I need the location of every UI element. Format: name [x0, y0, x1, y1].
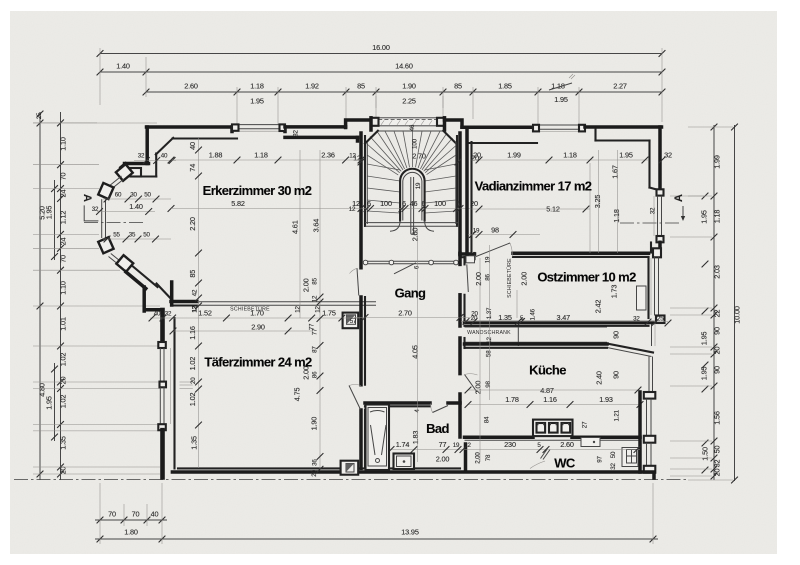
- north wall Erkerzimmer west part (outer face): [147, 125, 233, 129]
- svg-text:70: 70: [108, 510, 116, 519]
- Vadian interior extension lines: [598, 150, 600, 253]
- svg-text:58: 58: [486, 350, 493, 357]
- top dimension chain 1.40 / 14.60: [100, 71, 662, 73]
- svg-text:2.60: 2.60: [184, 82, 198, 91]
- window Taeferzimmer west glazing lower: [159, 387, 161, 424]
- Vadianzimmer south wall stub at spine: [460, 252, 475, 256]
- door leaf Bad: [433, 406, 449, 413]
- svg-text:86: 86: [485, 274, 492, 281]
- svg-text:77: 77: [439, 440, 447, 449]
- svg-text:19: 19: [453, 442, 460, 449]
- Vadianzimmer west wall: [465, 128, 469, 254]
- spine east: wall below Vadian stub: [458, 253, 462, 264]
- svg-text:1.70: 1.70: [250, 309, 264, 318]
- svg-text:1.74: 1.74: [396, 440, 410, 449]
- stairwell corner chamfer left: [365, 131, 378, 144]
- svg-text:1.18: 1.18: [612, 209, 621, 223]
- svg-text:1.95: 1.95: [700, 332, 709, 346]
- svg-text:Bad: Bad: [426, 421, 449, 436]
- east wall between Vadian and Ost windows: [658, 242, 662, 248]
- Wandschrank strip: [465, 326, 608, 328]
- glazed partition stair landing to Gang: [365, 260, 457, 262]
- svg-text:32: 32: [713, 460, 722, 468]
- east wall kitchen upper window strip: [648, 357, 650, 393]
- svg-text:1.95: 1.95: [250, 97, 264, 106]
- north wall NE corner (outer): [585, 125, 662, 129]
- Erker pier W-upper: [98, 183, 113, 199]
- window Vadianzimmer east pier top: [657, 189, 664, 195]
- svg-text:A: A: [81, 194, 93, 202]
- svg-text:2.20: 2.20: [188, 217, 197, 231]
- west wall niche inner line: [170, 348, 172, 424]
- svg-text:1.83: 1.83: [411, 431, 420, 445]
- svg-text:19: 19: [473, 228, 480, 235]
- section axis dash-dot right: [620, 222, 681, 224]
- Erker pier SE: [116, 255, 133, 272]
- bathtub: [366, 405, 390, 471]
- right dimension chain main: [713, 125, 715, 480]
- Erker SW inner diagonal wall: [133, 267, 158, 288]
- svg-text:32: 32: [610, 463, 617, 470]
- svg-text:12: 12: [312, 295, 319, 302]
- svg-text:Erkerzimmer 30 m2: Erkerzimmer 30 m2: [203, 183, 312, 198]
- svg-text:2.00: 2.00: [475, 452, 482, 464]
- window Vadianzimmer north pier right: [579, 125, 585, 132]
- svg-text:1.18: 1.18: [563, 151, 577, 160]
- svg-text:1.88: 1.88: [209, 151, 223, 160]
- svg-text:2.00: 2.00: [474, 272, 483, 286]
- svg-text:32: 32: [293, 130, 300, 137]
- left dimension chain 5.20/4.80: [39, 112, 41, 480]
- svg-text:1.02: 1.02: [188, 393, 197, 407]
- south wall (inner face): [178, 467, 341, 469]
- Erkerzimmer dims row1: [171, 159, 361, 161]
- svg-text:1.95: 1.95: [45, 206, 54, 220]
- Ostzimmer south wall: [465, 321, 654, 325]
- svg-text:98: 98: [485, 381, 492, 388]
- svg-text:85: 85: [312, 277, 319, 284]
- svg-text:1.93: 1.93: [599, 395, 613, 404]
- svg-text:20: 20: [471, 311, 478, 318]
- svg-text:32: 32: [650, 207, 657, 214]
- svg-text:1.75: 1.75: [322, 309, 336, 318]
- svg-text:20: 20: [473, 151, 481, 160]
- svg-text:100: 100: [412, 138, 419, 149]
- window Erkerzimmer north glazing: [239, 124, 280, 126]
- svg-text:2.00: 2.00: [302, 278, 311, 292]
- svg-text:12: 12: [315, 306, 322, 313]
- svg-text:1.90: 1.90: [310, 417, 319, 431]
- svg-text:90: 90: [612, 371, 621, 379]
- svg-text:1.80: 1.80: [124, 528, 138, 537]
- west wall Erkerzimmer outer vertical: [145, 127, 149, 164]
- svg-text:Ostzimmer 10 m2: Ostzimmer 10 m2: [537, 270, 636, 285]
- west wall inner face: [173, 318, 175, 468]
- right extension lines: [670, 195, 712, 197]
- Erker room corner vertical: [171, 283, 173, 303]
- svg-text:85: 85: [357, 82, 365, 91]
- svg-text:46: 46: [409, 124, 416, 131]
- svg-text:20: 20: [311, 469, 318, 476]
- spine east: wall at kitchen corner: [458, 338, 462, 374]
- Vadianzimmer dims row: [472, 159, 649, 161]
- bottom chain 1.80 and 13.95: [95, 538, 658, 540]
- svg-text:16.00: 16.00: [372, 43, 390, 52]
- svg-text:Küche: Küche: [529, 363, 566, 378]
- svg-text:1.99: 1.99: [507, 151, 521, 160]
- svg-text:1.95: 1.95: [45, 396, 54, 410]
- north wall Erkerzimmer west part (inner face): [173, 137, 238, 139]
- svg-text:1.73: 1.73: [610, 285, 619, 299]
- svg-text:20: 20: [59, 377, 68, 385]
- svg-text:SCHIEBETÜRE: SCHIEBETÜRE: [506, 258, 513, 298]
- door opening Gang to Erkerzimmer: [359, 297, 363, 385]
- window Erkerzimmer north pier right: [280, 124, 286, 131]
- svg-text:2.00: 2.00: [474, 381, 483, 395]
- svg-text:32: 32: [165, 311, 172, 318]
- svg-text:12: 12: [295, 306, 302, 313]
- svg-text:12: 12: [192, 305, 199, 312]
- svg-text:3.25: 3.25: [593, 195, 602, 209]
- Taeferzimmer right interior chain x320: [319, 310, 321, 470]
- spine east: wall segment below sliding door: [458, 295, 462, 326]
- svg-text:24: 24: [59, 190, 68, 198]
- stair eye handrail: [410, 177, 412, 233]
- window kitchen east pier 1: [644, 392, 656, 399]
- kitchen sink: [581, 438, 600, 447]
- door leaf Gang-Erkerzimmer: [357, 268, 359, 295]
- svg-text:97: 97: [597, 456, 604, 463]
- left small chain: [60, 112, 62, 480]
- window Ostzimmer east pier bottom: [656, 316, 665, 324]
- svg-text:3.47: 3.47: [556, 313, 570, 322]
- svg-text:1.35: 1.35: [59, 436, 68, 450]
- window Ostzimmer east pier top: [653, 248, 661, 257]
- svg-text:WANDSCHRANK: WANDSCHRANK: [467, 330, 511, 336]
- Erker SW outer diagonal wall: [126, 272, 146, 289]
- Erker SW window glazing: [109, 257, 122, 268]
- svg-text:1.95: 1.95: [700, 210, 709, 224]
- east wall Ostzimmer inner face: [647, 257, 649, 318]
- stair treads right flight: [425, 164, 456, 170]
- svg-text:20: 20: [190, 377, 197, 384]
- west wall outer face upper segment: [160, 310, 165, 342]
- svg-text:46: 46: [410, 199, 418, 208]
- left dimension chain 1.95s: [54, 180, 56, 260]
- Gang dims: [354, 317, 475, 319]
- Erker small dims: [103, 198, 171, 200]
- window kitchen east pier 2: [644, 436, 656, 443]
- svg-text:1.10: 1.10: [59, 137, 68, 151]
- svg-text:2.60: 2.60: [560, 440, 574, 449]
- svg-text:1.02: 1.02: [59, 395, 68, 409]
- svg-text:40: 40: [161, 153, 168, 160]
- svg-text:60: 60: [115, 192, 122, 199]
- stairwell corner chamfer right: [443, 131, 456, 144]
- svg-text:19: 19: [415, 182, 422, 189]
- svg-text:55: 55: [113, 232, 120, 239]
- Bad north wall with door: [365, 401, 430, 405]
- svg-text:1.02: 1.02: [59, 353, 68, 367]
- svg-text:1.67: 1.67: [611, 165, 620, 179]
- window Erkerzimmer north jamb steps: [230, 127, 234, 132]
- section line A-A bottom dash-dot: [14, 479, 688, 481]
- north wall NE corner (inner): [596, 139, 650, 141]
- spine wall west lower (Taeferzimmer east): [359, 410, 363, 468]
- east wall below Ostzimmer (to kitchen diagonal): [651, 323, 653, 346]
- Erkerzimmer vertical extensions: [299, 150, 301, 318]
- svg-text:2.00: 2.00: [520, 272, 529, 286]
- svg-text:Täferzimmer 24 m2: Täferzimmer 24 m2: [204, 355, 312, 370]
- Erkerzimmer interior chain x198: [198, 138, 200, 468]
- window Vadianzimmer east glazing: [657, 196, 659, 236]
- svg-text:6: 6: [367, 199, 371, 208]
- svg-text:1.95: 1.95: [554, 95, 568, 104]
- svg-text:50: 50: [713, 446, 722, 454]
- svg-text:1.02: 1.02: [188, 357, 197, 371]
- Vadian door dims 19/98: [468, 234, 540, 236]
- svg-text:Gang: Gang: [395, 286, 426, 301]
- Taeferzimmer Erker side wall vertical: [170, 282, 174, 305]
- window Taeferzimmer west glazing upper: [159, 348, 161, 382]
- window Taeferzimmer west pier 1: [158, 342, 166, 348]
- svg-text:70: 70: [59, 255, 68, 263]
- Ostzimmer radiator: [637, 286, 647, 310]
- svg-text:1.18: 1.18: [254, 151, 268, 160]
- svg-text:50: 50: [610, 451, 617, 458]
- svg-text:1.21: 1.21: [614, 409, 621, 421]
- Erker NW outer diagonal wall: [121, 164, 126, 168]
- svg-text:20: 20: [713, 347, 722, 355]
- svg-text:85: 85: [454, 82, 462, 91]
- svg-text:4.05: 4.05: [411, 345, 420, 359]
- svg-text:50: 50: [144, 192, 151, 199]
- svg-text:50: 50: [143, 232, 150, 239]
- svg-text:84: 84: [484, 416, 491, 423]
- svg-text:1.10: 1.10: [59, 281, 68, 295]
- svg-text:1.18: 1.18: [713, 210, 722, 224]
- east wall SE corner: [652, 473, 656, 478]
- svg-text:2.25: 2.25: [402, 97, 416, 106]
- svg-text:6: 6: [422, 199, 426, 208]
- svg-text:12: 12: [349, 153, 356, 160]
- Taeferzimmer top dims row: [150, 317, 360, 319]
- WC boiler: [622, 448, 638, 467]
- svg-text:19: 19: [485, 256, 492, 263]
- east wall SE corner pier: [644, 466, 656, 473]
- stair eye outer arch: [400, 169, 425, 221]
- stair eye inner arch: [403, 172, 422, 220]
- north wall between Erker window and stair bay (inner): [285, 136, 358, 140]
- svg-text:90: 90: [713, 366, 722, 374]
- stair bay side walls: [369, 118, 373, 130]
- top dimension chain row3: [146, 91, 662, 93]
- svg-text:2.36: 2.36: [321, 151, 335, 160]
- north wall Vadianzimmer west of window (outer): [462, 126, 533, 130]
- pencil strike over 1.18: [549, 83, 572, 90]
- sliding door Schiebetuere track Taeferzimmer: [197, 301, 376, 303]
- south wall (outer face): [172, 470, 654, 474]
- stair treads left flight: [367, 164, 400, 170]
- svg-text:1.40: 1.40: [129, 202, 143, 211]
- svg-text:1.99: 1.99: [713, 155, 722, 169]
- bottom chain 70/70/40: [95, 519, 167, 521]
- svg-text:87: 87: [312, 346, 319, 353]
- svg-text:2.27: 2.27: [613, 82, 627, 91]
- svg-text:20: 20: [713, 469, 722, 477]
- svg-text:13.95: 13.95: [401, 528, 419, 537]
- left extension lines: [33, 164, 99, 166]
- Vadianzimmer south wall with door: [513, 251, 649, 255]
- door leaf Gang-Kueche: [465, 375, 478, 393]
- Erker pier NE: [116, 164, 133, 181]
- inner diagonal at NW corner: [156, 138, 173, 155]
- svg-text:1.16: 1.16: [188, 326, 197, 340]
- svg-text:20: 20: [59, 467, 68, 475]
- door leaf stair-Gang: [394, 263, 416, 274]
- stair bay window band: [371, 118, 445, 126]
- kitchen east inner wall: [638, 392, 642, 472]
- chimney box in south wall: [341, 461, 359, 475]
- svg-text:98: 98: [491, 226, 499, 235]
- svg-text:1.78: 1.78: [505, 395, 519, 404]
- svg-text:25: 25: [657, 316, 664, 323]
- svg-text:2.42: 2.42: [594, 300, 603, 314]
- svg-text:1.92: 1.92: [305, 82, 319, 91]
- svg-text:6: 6: [456, 199, 460, 208]
- window Vadianzimmer north pier left: [533, 125, 539, 132]
- svg-text:Vadianzimmer 17 m2: Vadianzimmer 17 m2: [475, 179, 592, 194]
- sliding door opening Gang-Ostzimmer: [467, 264, 469, 292]
- stair bay window end blocks: [371, 118, 379, 126]
- outer jog left above Erker: [125, 162, 149, 166]
- stair winder fan: [367, 155, 398, 175]
- Erker pier W-lower: [98, 237, 113, 253]
- svg-text:4.75: 4.75: [293, 388, 302, 402]
- window niche vertical NW: [155, 154, 157, 177]
- svg-text:70: 70: [59, 173, 68, 181]
- Erker SW outer corner vertical: [142, 287, 146, 311]
- svg-text:WC: WC: [554, 456, 576, 471]
- east wall outer top segment: [658, 127, 662, 190]
- stair bay right shoulder: [445, 120, 463, 127]
- window Ostzimmer east glazing: [654, 257, 656, 315]
- svg-text:1.35: 1.35: [498, 313, 512, 322]
- svg-text:12: 12: [464, 442, 471, 449]
- svg-text:3.64: 3.64: [312, 219, 321, 233]
- Bad washbasin: [394, 454, 415, 470]
- svg-text:1.56: 1.56: [713, 411, 722, 425]
- svg-text:A: A: [673, 194, 685, 202]
- svg-text:1.52: 1.52: [198, 309, 212, 318]
- svg-text:1.16: 1.16: [543, 395, 557, 404]
- svg-text:32: 32: [633, 316, 640, 323]
- svg-text:4.87: 4.87: [540, 386, 554, 395]
- svg-text:77: 77: [312, 328, 319, 335]
- svg-text:1.50: 1.50: [701, 447, 710, 461]
- kitchen counter / WC north wall: [465, 435, 534, 439]
- svg-text:5.82: 5.82: [231, 199, 245, 208]
- WC dims row: [391, 449, 640, 451]
- svg-text:10.00: 10.00: [733, 306, 742, 324]
- svg-text:1.95: 1.95: [700, 367, 709, 381]
- svg-text:1.95: 1.95: [619, 151, 633, 160]
- svg-text:2.00: 2.00: [436, 455, 450, 464]
- top extension lines: [99, 48, 101, 105]
- svg-text:100: 100: [380, 199, 392, 208]
- west wall outer face lower segment: [160, 430, 165, 477]
- north wall between Erker window and stair bay (outer): [285, 125, 346, 129]
- svg-text:32: 32: [664, 151, 672, 160]
- svg-text:2.40: 2.40: [595, 371, 604, 385]
- window WC east glazing: [646, 443, 648, 466]
- notch square at pier NE: [131, 168, 142, 177]
- stair bay glazing hatch: [381, 120, 384, 125]
- Erkerzimmer dims row 5.82: [168, 205, 175, 212]
- svg-text:78: 78: [485, 454, 492, 461]
- Erker W window glazing: [101, 199, 103, 238]
- svg-text:2.70: 2.70: [398, 309, 412, 318]
- svg-text:90: 90: [612, 331, 621, 339]
- door leaf Vadianzimmer: [476, 243, 510, 257]
- right dimension chain 10.00: [734, 125, 736, 481]
- Erker NW window glazing: [109, 176, 122, 187]
- stair bay left shoulder: [346, 120, 371, 128]
- door pier box Vadianzimmer entrance: [466, 256, 475, 263]
- WC door slash: [541, 449, 548, 459]
- svg-text:27: 27: [582, 421, 589, 428]
- kitchen west wall lower: [458, 394, 462, 437]
- svg-text:25: 25: [36, 112, 43, 119]
- door pier box Taeferzimmer NE: [343, 313, 359, 329]
- svg-text:22: 22: [713, 310, 722, 318]
- bottom extension lines: [99, 483, 101, 544]
- dim 32/40 at NW jog: [134, 160, 176, 162]
- extension vertical x480: [479, 258, 481, 462]
- svg-text:230: 230: [504, 440, 516, 449]
- stairwell inner side lines: [366, 142, 368, 224]
- svg-text:32: 32: [92, 206, 99, 213]
- svg-text:90: 90: [713, 327, 722, 335]
- svg-text:40: 40: [151, 510, 159, 519]
- north wall Vadianzimmer west of window (inner): [467, 142, 537, 144]
- WC west wall: [464, 444, 468, 469]
- stair landing lines: [365, 222, 458, 224]
- svg-text:42: 42: [192, 289, 199, 296]
- svg-text:40: 40: [154, 311, 161, 318]
- svg-text:57: 57: [350, 318, 357, 325]
- svg-text:4.61: 4.61: [291, 220, 300, 234]
- kitchen north wall: [465, 342, 608, 346]
- west wall jog from Erker: [145, 308, 162, 312]
- svg-text:1.85: 1.85: [498, 82, 512, 91]
- svg-text:1.90: 1.90: [402, 82, 416, 91]
- Taeferzimmer north wall heavy part: [171, 300, 197, 304]
- svg-text:6: 6: [402, 199, 406, 208]
- window Erkerzimmer north pier left: [232, 124, 239, 130]
- svg-text:2.03: 2.03: [713, 265, 722, 279]
- svg-text:1.18: 1.18: [250, 82, 264, 91]
- window kitchen east glazing: [646, 399, 648, 436]
- svg-text:30: 30: [130, 192, 137, 199]
- kitchen NE diagonal wall: [607, 344, 653, 353]
- window Vadianzimmer east pier bottom: [657, 236, 664, 242]
- svg-text:40: 40: [188, 142, 197, 150]
- svg-text:2.90: 2.90: [251, 323, 265, 332]
- svg-text:2.70: 2.70: [412, 152, 426, 161]
- svg-text:1.46: 1.46: [530, 308, 537, 320]
- svg-text:4.80: 4.80: [38, 383, 47, 397]
